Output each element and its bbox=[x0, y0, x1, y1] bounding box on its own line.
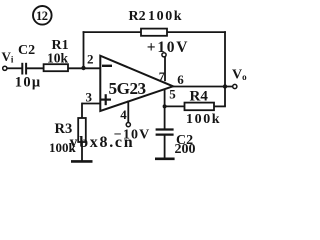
wire pin 3 horizontal bbox=[82, 103, 100, 105]
wire pin 5 vertical bbox=[164, 89, 166, 130]
svg-text:ybx8.cn: ybx8.cn bbox=[70, 134, 135, 151]
wire R4 left lead bbox=[165, 105, 185, 107]
wire R3 to ground bbox=[81, 142, 83, 161]
svg-text:4: 4 bbox=[120, 107, 127, 122]
svg-text:12: 12 bbox=[36, 9, 48, 23]
wire C2 to R1 bbox=[26, 67, 43, 69]
svg-text:Vi: Vi bbox=[2, 49, 14, 65]
svg-text:200: 200 bbox=[175, 142, 196, 157]
svg-text:R4: R4 bbox=[190, 89, 209, 105]
wire pin 3 down to R3 bbox=[81, 103, 83, 118]
wire op-amp output to Vo bbox=[172, 86, 233, 88]
wire R1 to op-amp pin 2 bbox=[68, 67, 100, 69]
svg-text:6: 6 bbox=[177, 72, 184, 87]
figure number 12 circle bbox=[33, 6, 52, 25]
svg-text:3: 3 bbox=[86, 90, 93, 105]
wire R4 right lead bbox=[214, 105, 226, 107]
svg-text:C2: C2 bbox=[18, 43, 35, 58]
svg-text:R2: R2 bbox=[129, 9, 146, 24]
wire C2 to ground bbox=[164, 135, 166, 159]
capacitor C2 (input) bbox=[22, 63, 26, 75]
wire feedback right vertical down to output and R4 bbox=[224, 31, 226, 106]
resistor R3 bbox=[78, 118, 86, 142]
wire Vi to C2 bbox=[7, 67, 22, 69]
ground bar under C2 bbox=[155, 158, 175, 161]
node +10V supply terminal bbox=[162, 53, 166, 57]
svg-text:7: 7 bbox=[159, 69, 165, 83]
svg-text:5: 5 bbox=[169, 87, 176, 102]
resistor R2 bbox=[141, 29, 167, 36]
node Vi input terminal bbox=[3, 66, 7, 70]
resistor R1 bbox=[44, 64, 68, 71]
op-amp U1 5G23 bbox=[100, 56, 173, 111]
svg-text:100k: 100k bbox=[186, 112, 221, 127]
svg-text:Vo: Vo bbox=[232, 68, 247, 83]
svg-text:2: 2 bbox=[87, 51, 94, 66]
wire pin 4 down bbox=[127, 101, 129, 123]
svg-text:+10V: +10V bbox=[147, 39, 189, 56]
svg-text:100k: 100k bbox=[148, 9, 183, 24]
ground bar under R3 bbox=[71, 160, 93, 163]
wire pin 7 to +10V terminal bbox=[164, 57, 166, 81]
node -10V supply terminal bbox=[126, 123, 130, 127]
wire feedback vertical left bbox=[83, 31, 85, 68]
resistor R4 bbox=[185, 103, 215, 111]
wire feedback top right segment bbox=[167, 31, 226, 33]
svg-text:10μ: 10μ bbox=[15, 74, 42, 90]
svg-text:10k: 10k bbox=[47, 51, 69, 66]
node Vo output terminal bbox=[233, 84, 237, 88]
svg-text:5G23: 5G23 bbox=[109, 79, 146, 98]
node output junction bbox=[223, 84, 227, 88]
wire feedback top left segment bbox=[83, 31, 141, 33]
node junction at inverting input bbox=[81, 66, 85, 70]
capacitor C2 (bypass) bbox=[156, 130, 174, 135]
node junction R4 left bbox=[163, 104, 167, 108]
